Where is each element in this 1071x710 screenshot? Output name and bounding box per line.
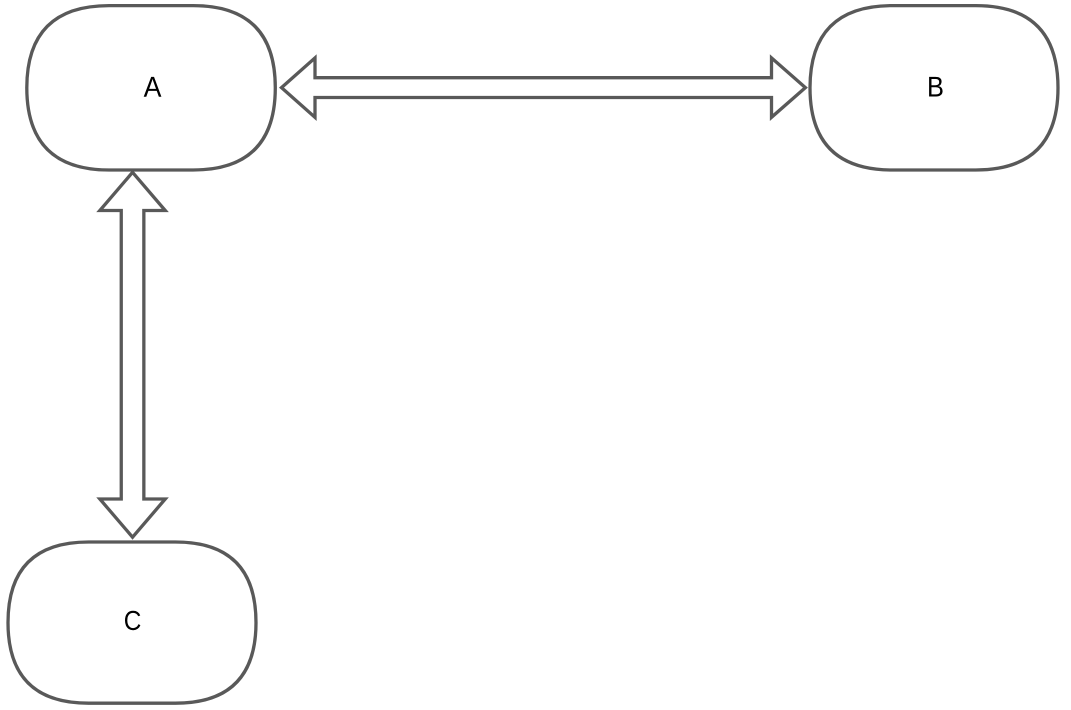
label C — [125, 611, 140, 630]
node C — [8, 542, 256, 703]
label B — [929, 77, 942, 97]
arrow A-C (bidirectional hollow arrow) — [100, 172, 165, 537]
label A — [144, 77, 162, 97]
arrow A-B (bidirectional hollow arrow) — [282, 58, 806, 117]
node B — [810, 6, 1058, 170]
node A — [27, 6, 275, 170]
